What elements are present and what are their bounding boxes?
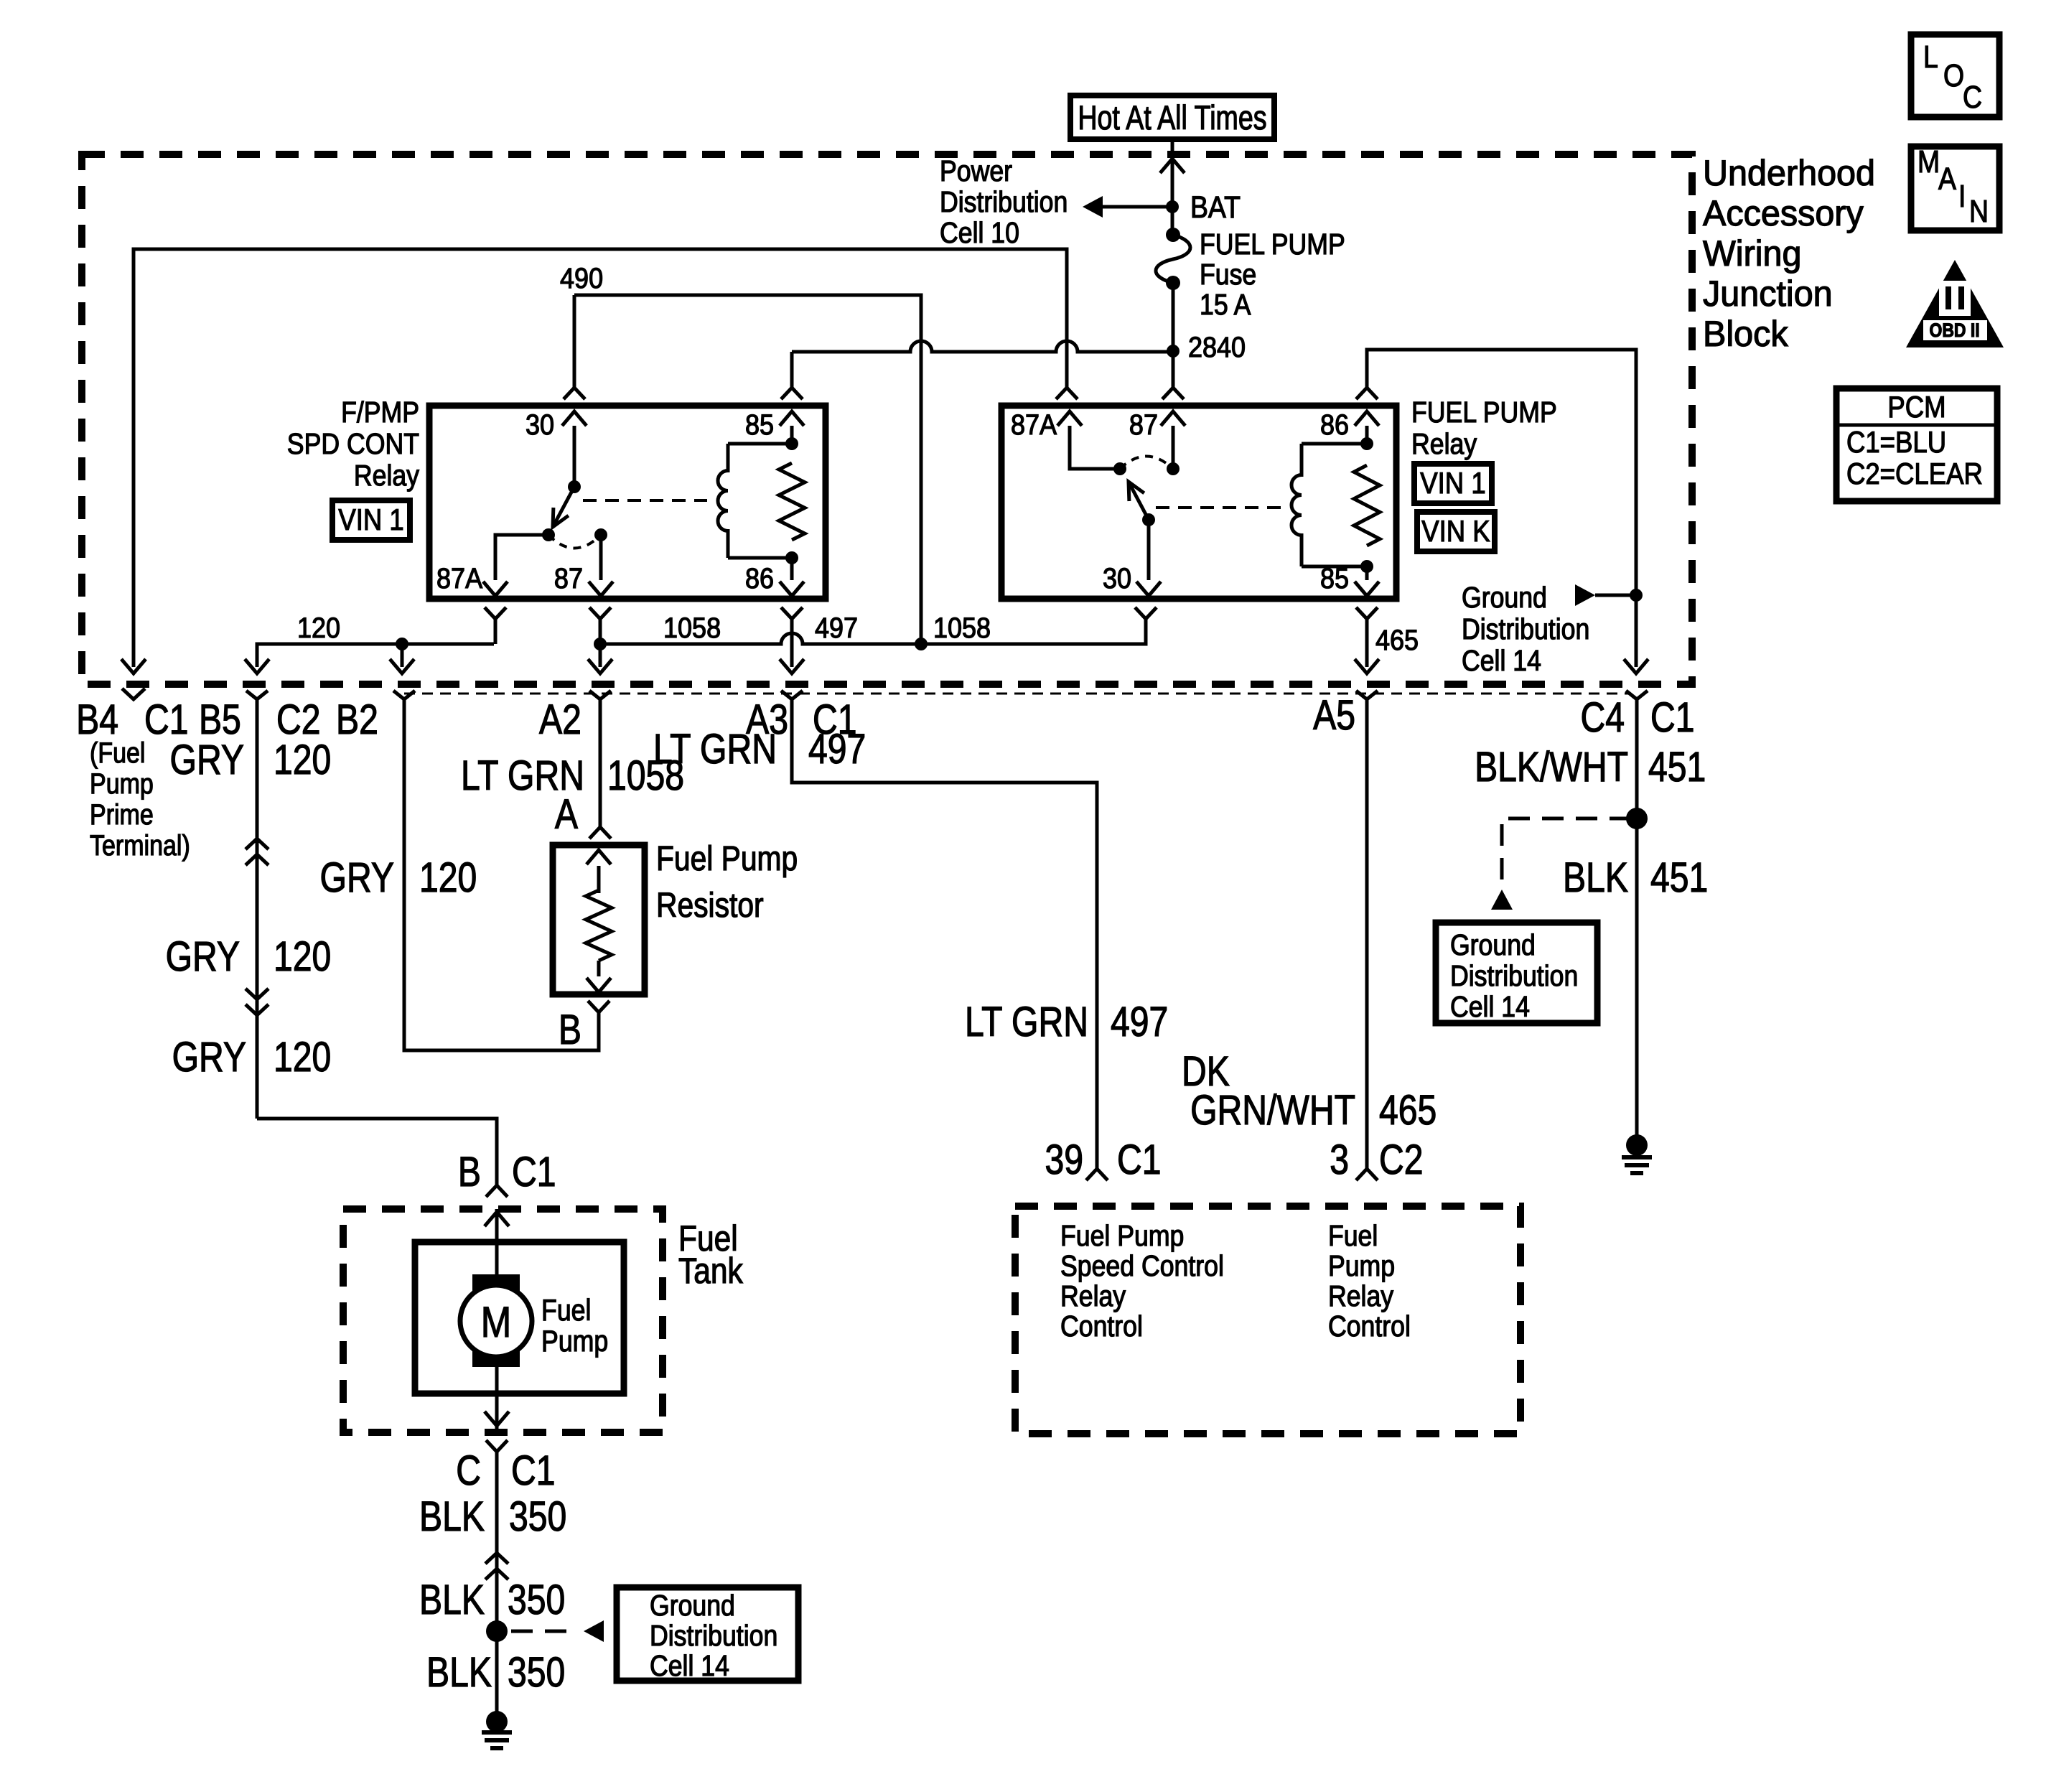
svg-text:Fuel Pump: Fuel Pump: [1060, 1220, 1184, 1253]
svg-text:GRY: GRY: [172, 1035, 246, 1081]
svg-text:A2: A2: [539, 697, 581, 743]
svg-text:C1: C1: [1117, 1137, 1162, 1183]
svg-text:M: M: [1917, 144, 1940, 179]
fuel tank connector: labels B C1: [458, 1149, 556, 1195]
svg-text:465: 465: [1379, 1088, 1437, 1134]
svg-text:BLK: BLK: [419, 1577, 485, 1623]
svg-text:C1=BLU: C1=BLU: [1846, 426, 1946, 459]
svg-text:B5: B5: [199, 697, 241, 743]
relay K2 contact throw linkage (dashed arc): [1120, 457, 1173, 470]
svg-text:120: 120: [274, 737, 331, 783]
svg-text:Fuel: Fuel: [1328, 1220, 1378, 1253]
wire out of fuel tank (exit arrow): [495, 1394, 499, 1429]
relay K2 node at pin 86: [1360, 437, 1373, 450]
svg-text:87A: 87A: [436, 563, 483, 594]
label: Power Distribution Cell 10: [940, 155, 1068, 250]
svg-text:Block: Block: [1703, 314, 1788, 354]
relay K2 pin 30 (bottom): [1103, 520, 1161, 596]
relay K1 switch arm (points to 87A contact): [553, 487, 574, 527]
svg-text:1058: 1058: [933, 612, 991, 644]
svg-text:FUEL PUMP: FUEL PUMP: [1411, 396, 1557, 429]
wire: fuel pump prime feed - FUEL PUMP relay 87A to terminal B4: [134, 249, 1067, 667]
svg-text:BLK: BLK: [419, 1494, 485, 1540]
wire: GRY 120 runs to fuel tank connector B/C1: [257, 1119, 497, 1185]
node: splice of wire 490 on 1058: [915, 638, 928, 650]
svg-text:Relay: Relay: [1060, 1280, 1126, 1313]
svg-text:Distribution: Distribution: [650, 1620, 777, 1653]
fuse: FUEL PUMP Fuse 15 A: [1156, 228, 1190, 290]
PCM pin fork 3/C2: [1356, 1169, 1378, 1180]
svg-text:Power: Power: [940, 155, 1012, 188]
label: DK GRN/WHT 465: [1182, 1049, 1437, 1134]
wire: A2 exit from splice 1058: [599, 644, 602, 667]
svg-text:497: 497: [1111, 999, 1168, 1045]
junction block boundary: Underhood Accessory Wiring Junction Block (dashed): [82, 154, 1692, 684]
relay K1 contact throw linkage (dashed arc): [548, 535, 601, 549]
wire: DK GRN/WHT 465 from terminal A5 to PCM pin 3: [1356, 691, 1378, 1169]
svg-text:Tank: Tank: [678, 1251, 743, 1291]
terminal labels B4 C1 B5 at junction block exit: [76, 697, 241, 743]
option tag: VIN K (FUEL PUMP relay): [1417, 512, 1495, 551]
svg-text:Wiring: Wiring: [1703, 233, 1801, 274]
connector fork at terminal C2: [246, 691, 268, 699]
relay K2 contact 87A: [1113, 462, 1126, 475]
svg-text:120: 120: [297, 612, 340, 644]
relay K1 pin 85 (top): [745, 409, 804, 444]
node: ground splice on BLK/WHT 451: [1626, 808, 1648, 829]
relay K2 contact 87: [1167, 462, 1180, 475]
connector fork below F/PMP relay pin 87: [589, 607, 611, 619]
option tag: VIN 1 (F/PMP relay): [332, 500, 410, 540]
relay K1 coil: [718, 444, 792, 558]
svg-text:120: 120: [274, 934, 331, 980]
terminal labels C2 B2: [276, 697, 378, 743]
terminal B4 chevron at junction block boundary: [122, 689, 145, 699]
option tag: VIN 1 (FUEL PUMP relay): [1414, 464, 1492, 503]
relay K2 pin 87A (top): [1011, 409, 1120, 469]
svg-text:B2: B2: [336, 697, 378, 743]
relay K1 pin 87 internal wire: [554, 535, 613, 596]
svg-text:350: 350: [509, 1494, 566, 1540]
svg-text:87: 87: [1129, 409, 1158, 441]
fuel tank connector: labels C C1: [456, 1448, 555, 1494]
label: Underhood Accessory Wiring Junction Block: [1703, 153, 1875, 354]
PCM pin labels 39 C1: [1045, 1137, 1161, 1183]
svg-text:Resistor: Resistor: [656, 887, 764, 925]
label: Ground Distribution Cell 14 (upper): [1462, 582, 1589, 678]
connector fork C4/C1 and wire BLK/WHT 451 to ground: [1626, 691, 1648, 1135]
relay K1 pin 86 (bottom): [745, 558, 804, 596]
symbol: LOC box: [1911, 34, 1999, 117]
relay K1 pin 30 (top): [525, 409, 587, 487]
label: Fuel Pump Resistor: [656, 840, 798, 925]
svg-text:A: A: [555, 792, 579, 838]
svg-text:497: 497: [808, 727, 866, 773]
label: LT GRN 1058: [461, 753, 684, 799]
svg-text:BAT: BAT: [1190, 190, 1241, 225]
relay K1 switch pivot: [568, 480, 581, 493]
svg-text:Pump: Pump: [1328, 1250, 1395, 1283]
svg-text:3: 3: [1330, 1137, 1349, 1183]
resistor pin B fork and label: [559, 1001, 609, 1053]
connector fork below F/PMP relay pin 86: [781, 607, 803, 619]
svg-text:Underhood: Underhood: [1703, 153, 1875, 193]
relay K2 switch pivot: [1142, 513, 1155, 526]
svg-text:86: 86: [1320, 409, 1349, 441]
PCM pin fork 39/C1: [1086, 1169, 1108, 1180]
ground G: fuel pump ground: [482, 1711, 512, 1748]
relay K2 node at pin 85: [1360, 560, 1373, 573]
resistor R: Fuel Pump Resistor box: [553, 845, 645, 994]
svg-text:Relay: Relay: [1411, 428, 1477, 461]
symbol: MAIN box: [1911, 144, 1999, 230]
svg-text:PCM: PCM: [1887, 391, 1945, 424]
connector fork below F/PMP relay pin 87A: [485, 607, 506, 619]
relay K2 coil: [1291, 444, 1367, 566]
label: BLK 350 (lower): [426, 1650, 565, 1696]
wire: fuse output down to node 2840: [1172, 283, 1175, 351]
relay K2 switch arm (points to 87A contact): [1129, 482, 1149, 520]
svg-text:O: O: [1943, 57, 1964, 93]
svg-text:Control: Control: [1060, 1310, 1143, 1343]
label: BLK 451: [1563, 855, 1708, 901]
svg-text:Cell 14: Cell 14: [1462, 645, 1541, 678]
svg-text:A5: A5: [1313, 693, 1355, 739]
connector fork above FUEL PUMP relay pin 87: [1162, 388, 1184, 399]
relay K1 contact 87A: [542, 528, 555, 541]
svg-text:OBD II: OBD II: [1929, 319, 1979, 341]
wire into fuel tank (entry arrow): [495, 1209, 499, 1242]
svg-text:87: 87: [554, 563, 583, 594]
svg-text:30: 30: [525, 409, 554, 441]
svg-text:15 A: 15 A: [1200, 289, 1251, 322]
inline connector on wire 120 (double chevron, lower): [246, 989, 268, 999]
label: GRY 120 (middle): [166, 934, 332, 980]
resistor pin A label and fork: [555, 792, 611, 839]
node: splice on wire 120: [396, 638, 408, 650]
svg-text:C1: C1: [512, 1149, 556, 1195]
node: BAT splice: [1166, 200, 1179, 213]
terminal labels C4 C1: [1580, 695, 1694, 741]
svg-text:465: 465: [1375, 625, 1419, 656]
PCM connector dashed outline: [1015, 1206, 1521, 1434]
fuel tank lower connector fork C/C1: [486, 1440, 508, 1452]
label: GRY 120 (lower): [172, 1035, 332, 1081]
svg-text:C2=CLEAR: C2=CLEAR: [1846, 457, 1983, 491]
svg-text:350: 350: [508, 1650, 565, 1696]
node: ground splice on BLK 350: [486, 1620, 508, 1642]
svg-text:Junction: Junction: [1703, 274, 1833, 314]
svg-text:Speed Control: Speed Control: [1060, 1250, 1224, 1283]
connector fork at terminal A3/C1 and wire LT GRN 497 to PCM pin 39: [781, 691, 1097, 1169]
svg-text:Cell 14: Cell 14: [1450, 991, 1530, 1024]
PCM pin labels 3 C2: [1330, 1137, 1423, 1183]
svg-text:(Fuel: (Fuel: [90, 736, 145, 768]
svg-text:B: B: [458, 1149, 481, 1195]
svg-text:I: I: [1958, 178, 1966, 214]
relay K2 armature-to-coil dashed link: [1156, 506, 1289, 509]
svg-text:LT GRN: LT GRN: [965, 999, 1088, 1045]
wire: BAT tap to Power Distribution Cell 10 (off-page arrow): [1083, 196, 1172, 218]
relay K2 coil suppression resistor: [1354, 465, 1380, 546]
svg-text:C4: C4: [1580, 695, 1625, 741]
svg-text:85: 85: [745, 409, 774, 441]
svg-text:Ground: Ground: [1450, 929, 1536, 962]
svg-text:Hot At All Times: Hot At All Times: [1078, 99, 1266, 137]
wire 1058 inside junction block (pin 87 to FUEL PUMP relay pin 30, hops over 497): [600, 619, 1146, 644]
label: Fuel Pump Speed Control Relay Control (PCM): [1060, 1220, 1224, 1343]
wire 490: F/PMP relay pin 30 feed loop to splice on circuit 1058: [574, 295, 921, 643]
fuel pump motor box: [415, 1242, 624, 1394]
relay K2 pin 86 (top): [1320, 409, 1379, 444]
label: Fuel Pump (motor): [541, 1294, 608, 1358]
svg-text:B: B: [559, 1007, 581, 1053]
svg-text:Cell 14: Cell 14: [650, 1650, 729, 1683]
connector fork above F/PMP relay pin 30: [564, 388, 585, 399]
relay K1 armature-to-coil dashed link: [583, 499, 707, 502]
svg-text:Fuel: Fuel: [541, 1294, 591, 1327]
label: GRY 120 (upper): [170, 737, 332, 783]
motor M: fuel pump motor symbol: [460, 1274, 532, 1367]
wire through fuel pump motor: [495, 1242, 499, 1394]
svg-text:Distribution: Distribution: [1462, 613, 1589, 646]
svg-text:2840: 2840: [1188, 332, 1246, 363]
svg-text:F/PMP: F/PMP: [341, 396, 419, 429]
connector fork at terminal B2 and wire to resistor pin B: [393, 691, 599, 1050]
relay K1 node at pin 85: [785, 437, 798, 450]
svg-text:FUEL PUMP: FUEL PUMP: [1200, 228, 1345, 261]
relay K2 pin 85 (bottom): [1320, 563, 1379, 596]
label: FUEL PUMP Fuse 15 A: [1200, 228, 1345, 322]
svg-text:Pump: Pump: [90, 767, 154, 799]
svg-text:C: C: [456, 1448, 481, 1494]
svg-text:120: 120: [274, 1035, 331, 1081]
svg-text:39: 39: [1045, 1137, 1083, 1183]
label: LT GRN 497 (mid): [965, 999, 1168, 1045]
node: splice 1058 below pin 87: [594, 638, 607, 650]
reference box: Ground Distribution Cell 14 (lower): [617, 1587, 798, 1683]
svg-text:GRY: GRY: [320, 855, 394, 901]
connector fork above F/PMP relay pin 85: [781, 388, 803, 399]
svg-text:BLK: BLK: [1563, 855, 1628, 901]
svg-text:Prime: Prime: [90, 798, 154, 830]
label: BLK/WHT 451: [1475, 745, 1706, 790]
connector fork below FUEL PUMP relay pin 85 and wire 465 exit: [1356, 607, 1378, 619]
wire: FUEL PUMP relay pin 86 to ground distribution / terminal C4: [1356, 350, 1648, 673]
svg-text:87A: 87A: [1011, 409, 1057, 441]
connector fork above FUEL PUMP relay pin 87A: [1056, 388, 1078, 399]
svg-text:120: 120: [419, 855, 477, 901]
svg-text:C2: C2: [1379, 1137, 1424, 1183]
svg-text:Pump: Pump: [541, 1325, 608, 1358]
relay K1 coil suppression resistor: [779, 463, 805, 540]
svg-text:Terminal): Terminal): [90, 829, 190, 861]
legend box: PCM connector colors: [1836, 388, 1997, 501]
wire: splice to terminal B2: [401, 644, 404, 667]
svg-text:30: 30: [1103, 563, 1131, 594]
svg-text:Accessory: Accessory: [1703, 193, 1864, 233]
relay K2 pin 87 (top): [1129, 409, 1185, 469]
svg-text:GRN/WHT: GRN/WHT: [1190, 1088, 1355, 1134]
svg-text:M: M: [481, 1298, 511, 1346]
wire: ignition feed from node 2840 to F/PMP relay pin 85 (hops over 490 and 87A wires): [792, 341, 1173, 388]
svg-text:86: 86: [745, 563, 774, 594]
node: splice 2840: [1167, 345, 1180, 358]
svg-text:GRY: GRY: [170, 737, 244, 783]
svg-text:Cell 10: Cell 10: [940, 217, 1019, 250]
off-page reference: Ground Distribution Cell 14 (relay coil ground): [1575, 584, 1636, 606]
relay K2: FUEL PUMP Relay outline: [1001, 406, 1396, 599]
wire: node 2840 down to FUEL PUMP relay pin 87: [1172, 351, 1175, 381]
svg-text:VIN 1: VIN 1: [338, 503, 403, 537]
off-page reference: Ground Distribution Cell 14 (dashed arrow): [511, 1620, 604, 1642]
svg-text:Distribution: Distribution: [940, 186, 1068, 219]
svg-text:C1: C1: [144, 697, 189, 743]
svg-text:85: 85: [1320, 563, 1349, 594]
label: F/PMP SPD CONT Relay: [287, 396, 420, 493]
svg-text:GRY: GRY: [166, 934, 240, 980]
svg-text:C2: C2: [276, 697, 321, 743]
relay K1 pin 87A internal wire: [436, 535, 548, 596]
svg-text:C: C: [1963, 79, 1982, 115]
connector face line (thin dashed) along bottom of junction block: [404, 693, 1630, 695]
svg-text:LT GRN: LT GRN: [653, 727, 777, 773]
terminal labels A3 C1 497: [746, 697, 866, 773]
node: tap for ground distribution reference: [1630, 589, 1643, 602]
fuel tank connector fork B/C1: [486, 1185, 508, 1197]
svg-text:N: N: [1969, 193, 1989, 229]
svg-text:Ground: Ground: [1462, 582, 1547, 615]
svg-text:Distribution: Distribution: [1450, 960, 1578, 993]
relay K1 node at pin 86: [785, 551, 798, 564]
reference box: Ground Distribution Cell 14 (right): [1436, 923, 1597, 1024]
label: GRY 120 (B2 branch): [320, 855, 477, 901]
off-page reference: Ground Distribution Cell 14 (dashed branch): [1491, 818, 1631, 910]
svg-text:451: 451: [1650, 855, 1708, 901]
svg-text:Fuse: Fuse: [1200, 258, 1256, 291]
label: Fuel Pump Relay Control (PCM): [1328, 1220, 1411, 1343]
symbol: OBD II triangle: [1906, 260, 2004, 347]
label: BLK 350 (middle): [419, 1577, 565, 1623]
svg-text:Ground: Ground: [650, 1590, 735, 1623]
power source box: Hot At All Times: [1070, 95, 1274, 139]
svg-text:VIN K: VIN K: [1421, 515, 1490, 549]
svg-text:490: 490: [560, 263, 603, 294]
ground G: PCM/relay ground: [1622, 1134, 1652, 1173]
wire: battery feed from Hot At All Times into junction block: [1171, 139, 1174, 235]
connector fork below FUEL PUMP relay pin 30: [1135, 607, 1157, 619]
relay K1 contact 87: [594, 528, 607, 541]
svg-text:Relay: Relay: [1328, 1280, 1394, 1313]
svg-text:A: A: [1938, 161, 1957, 197]
svg-text:C1: C1: [1650, 695, 1695, 741]
svg-text:BLK/WHT: BLK/WHT: [1475, 745, 1628, 790]
svg-text:1058: 1058: [663, 612, 721, 644]
relay K1: F/PMP SPD CONT Relay outline: [429, 406, 826, 599]
inline connector on wire 120 (double chevron): [246, 839, 268, 849]
fuel pump resistor element: [586, 850, 612, 992]
label: Fuel Tank: [678, 1218, 743, 1291]
label: FUEL PUMP Relay: [1411, 396, 1557, 461]
svg-text:SPD CONT: SPD CONT: [287, 428, 419, 461]
wire 120 inside junction block (87A to terminals C2/B2): [257, 644, 494, 667]
svg-text:Relay: Relay: [354, 459, 420, 493]
svg-text:C1: C1: [511, 1448, 556, 1494]
svg-text:VIN 1: VIN 1: [1420, 467, 1485, 500]
svg-text:Fuel Pump: Fuel Pump: [656, 840, 798, 878]
svg-text:350: 350: [508, 1577, 565, 1623]
svg-text:BLK: BLK: [426, 1650, 492, 1696]
svg-text:Control: Control: [1328, 1310, 1411, 1343]
fuel tank dashed outline: [343, 1209, 663, 1432]
label: BLK 350 (upper): [419, 1494, 566, 1540]
svg-text:451: 451: [1648, 745, 1706, 790]
svg-text:497: 497: [815, 612, 858, 644]
label: (Fuel Pump Prime Terminal): [90, 736, 190, 861]
svg-text:L: L: [1923, 39, 1938, 75]
inline connector on wire 350 (double chevron): [485, 1553, 508, 1564]
connector fork at terminal A2 and wire LT GRN 1058 to resistor pin A: [589, 691, 611, 827]
